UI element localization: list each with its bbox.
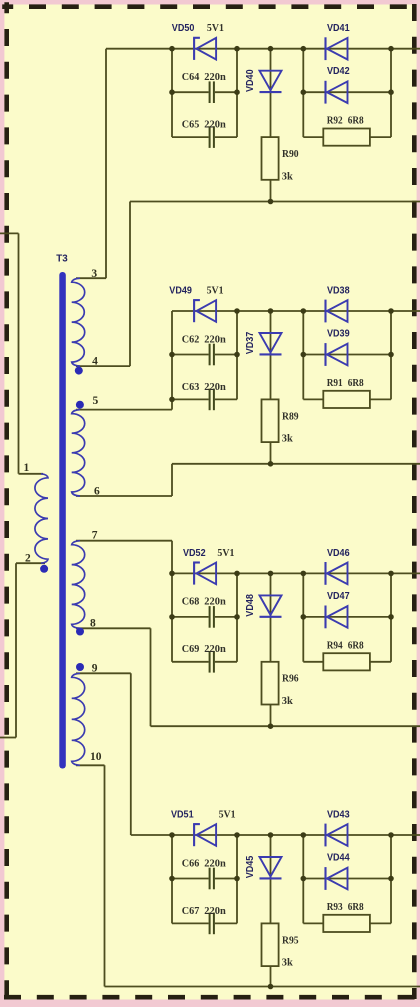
svg-text:VD41: VD41 [327, 23, 350, 34]
svg-text:R92: R92 [327, 116, 343, 127]
svg-text:3: 3 [91, 268, 97, 280]
svg-text:5V1: 5V1 [217, 548, 234, 559]
svg-text:R94: R94 [327, 640, 344, 651]
svg-text:6R8: 6R8 [348, 902, 364, 913]
svg-text:10: 10 [90, 751, 102, 763]
svg-text:3k: 3k [282, 958, 293, 969]
svg-text:C68: C68 [182, 597, 200, 608]
svg-text:R96: R96 [282, 674, 299, 685]
svg-text:220n: 220n [204, 597, 226, 608]
svg-text:VD48: VD48 [245, 594, 256, 617]
svg-text:5V1: 5V1 [207, 286, 224, 297]
svg-text:220n: 220n [204, 858, 226, 869]
svg-text:VD43: VD43 [327, 810, 350, 821]
svg-text:220n: 220n [204, 334, 226, 345]
svg-text:VD42: VD42 [327, 66, 350, 77]
svg-text:C66: C66 [182, 858, 200, 869]
svg-text:220n: 220n [204, 644, 226, 655]
svg-text:VD38: VD38 [327, 286, 350, 297]
svg-text:220n: 220n [204, 72, 226, 83]
svg-text:8: 8 [90, 618, 96, 630]
svg-text:220n: 220n [204, 906, 226, 917]
svg-text:C65: C65 [182, 120, 200, 131]
svg-text:VD52: VD52 [183, 548, 206, 559]
svg-text:VD51: VD51 [171, 810, 194, 821]
svg-text:R89: R89 [282, 411, 299, 422]
svg-text:5: 5 [93, 395, 99, 407]
svg-text:C62: C62 [182, 334, 200, 345]
svg-text:C67: C67 [182, 906, 200, 917]
svg-text:5V1: 5V1 [207, 23, 224, 34]
svg-text:R95: R95 [282, 935, 299, 946]
svg-text:6R8: 6R8 [348, 640, 364, 651]
svg-text:VD49: VD49 [169, 286, 192, 297]
svg-text:VD45: VD45 [245, 855, 256, 878]
svg-text:VD37: VD37 [245, 331, 256, 354]
svg-text:1: 1 [24, 462, 30, 474]
svg-text:9: 9 [92, 662, 98, 674]
svg-text:T3: T3 [56, 254, 68, 265]
svg-text:VD39: VD39 [327, 328, 350, 339]
svg-text:220n: 220n [204, 382, 226, 393]
svg-text:C63: C63 [182, 382, 200, 393]
svg-text:6: 6 [94, 486, 100, 498]
svg-text:3k: 3k [282, 171, 293, 182]
svg-text:R91: R91 [327, 378, 343, 389]
svg-text:VD44: VD44 [327, 852, 350, 863]
svg-text:R90: R90 [282, 149, 299, 160]
svg-text:7: 7 [92, 529, 98, 541]
svg-text:4: 4 [92, 356, 98, 368]
svg-text:3k: 3k [282, 696, 293, 707]
svg-text:C69: C69 [182, 644, 200, 655]
svg-text:VD40: VD40 [245, 69, 256, 92]
svg-text:3k: 3k [282, 434, 293, 445]
svg-text:VD50: VD50 [172, 23, 195, 34]
svg-text:2: 2 [25, 553, 31, 565]
svg-text:R93: R93 [327, 902, 343, 913]
svg-text:6R8: 6R8 [348, 378, 364, 389]
svg-text:C64: C64 [182, 72, 200, 83]
svg-text:6R8: 6R8 [348, 116, 364, 127]
svg-text:VD47: VD47 [327, 591, 350, 602]
svg-text:220n: 220n [204, 120, 226, 131]
svg-text:VD46: VD46 [327, 548, 350, 559]
svg-text:5V1: 5V1 [219, 810, 236, 821]
